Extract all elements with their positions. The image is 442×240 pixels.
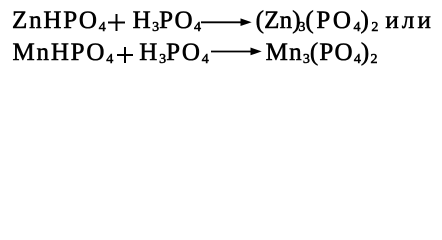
line 1 word: или: [385, 8, 434, 33]
line 1 product: (Zn)3(PO4)2: [256, 8, 301, 33]
line 2 reactant 1: MnHPO4: [13, 40, 114, 65]
arrow 2: [211, 47, 263, 56]
line 1 reactant 2: H3PO4: [133, 8, 201, 33]
line 2 product: Mn3(PO4)2: [266, 40, 378, 65]
plus 2: [117, 47, 133, 63]
plus 1: [108, 14, 125, 31]
arrow 1: [201, 18, 253, 27]
line 2 reactant 2: H3PO4: [139, 40, 209, 65]
line 1 reactant 1: ZnHPO4: [12, 8, 106, 33]
